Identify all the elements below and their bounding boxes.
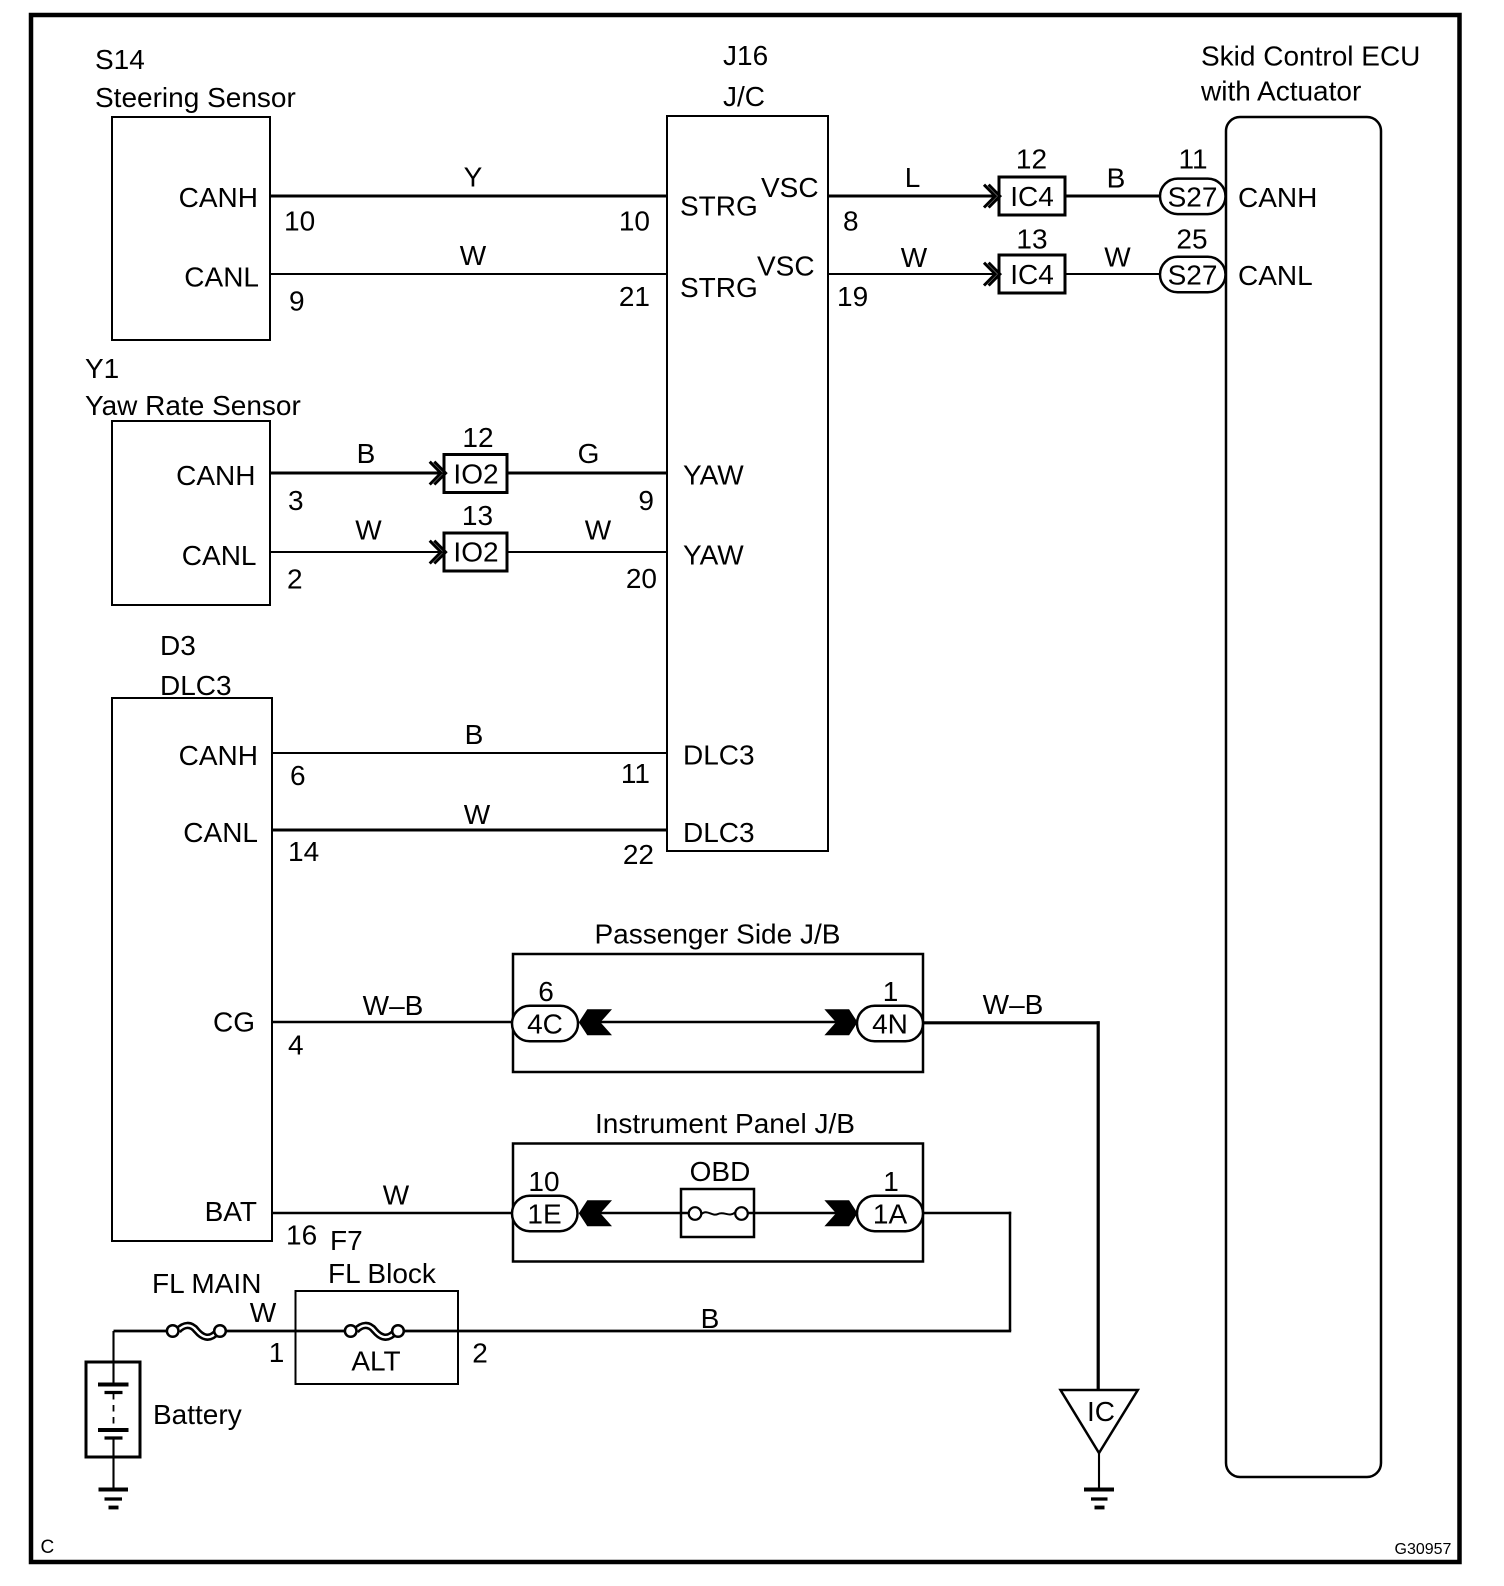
- svg-text:CANH: CANH: [1238, 182, 1317, 213]
- svg-text:6: 6: [290, 760, 306, 791]
- svg-text:14: 14: [288, 836, 319, 867]
- svg-text:W: W: [383, 1180, 410, 1211]
- svg-text:CANL: CANL: [182, 540, 257, 571]
- svg-text:F7: F7: [330, 1225, 363, 1256]
- svg-text:3: 3: [288, 485, 304, 516]
- svg-text:2: 2: [472, 1338, 488, 1369]
- svg-text:CG: CG: [213, 1007, 255, 1038]
- svg-text:YAW: YAW: [683, 460, 744, 491]
- svg-text:S27: S27: [1168, 260, 1218, 291]
- svg-text:D3: D3: [160, 630, 196, 661]
- svg-text:Skid Control ECU: Skid Control ECU: [1201, 41, 1420, 72]
- svg-text:12: 12: [462, 422, 493, 453]
- svg-text:W: W: [464, 799, 491, 830]
- svg-text:19: 19: [837, 281, 868, 312]
- svg-text:G30957: G30957: [1395, 1541, 1452, 1558]
- svg-text:10: 10: [619, 206, 650, 237]
- svg-text:ALT: ALT: [351, 1346, 400, 1377]
- svg-text:4: 4: [288, 1030, 304, 1061]
- svg-text:W–B: W–B: [983, 989, 1044, 1020]
- svg-text:STRG: STRG: [680, 191, 758, 222]
- svg-text:VSC: VSC: [761, 172, 819, 203]
- svg-text:IC4: IC4: [1010, 259, 1054, 290]
- svg-text:9: 9: [289, 286, 305, 317]
- svg-text:22: 22: [623, 839, 654, 870]
- svg-text:W–B: W–B: [363, 990, 424, 1021]
- svg-text:Instrument Panel J/B: Instrument Panel J/B: [595, 1108, 855, 1139]
- svg-text:13: 13: [462, 500, 493, 531]
- svg-text:DLC3: DLC3: [683, 817, 755, 848]
- svg-text:IC: IC: [1087, 1396, 1115, 1427]
- svg-text:W: W: [901, 242, 928, 273]
- svg-text:1: 1: [269, 1337, 285, 1368]
- svg-text:12: 12: [1016, 144, 1047, 175]
- svg-text:2: 2: [287, 564, 303, 595]
- svg-text:CANH: CANH: [179, 740, 258, 771]
- svg-text:CANH: CANH: [179, 182, 258, 213]
- svg-text:B: B: [701, 1303, 720, 1334]
- svg-text:W: W: [1104, 242, 1131, 273]
- svg-text:CANL: CANL: [183, 817, 258, 848]
- svg-text:1E: 1E: [527, 1199, 561, 1230]
- svg-text:B: B: [465, 719, 484, 750]
- svg-text:L: L: [905, 162, 921, 193]
- svg-text:Y1: Y1: [85, 353, 119, 384]
- svg-text:1A: 1A: [873, 1199, 908, 1230]
- svg-text:1: 1: [883, 976, 899, 1007]
- svg-text:STRG: STRG: [680, 272, 758, 303]
- svg-text:W: W: [355, 515, 382, 546]
- svg-text:4C: 4C: [527, 1009, 563, 1040]
- svg-text:J16: J16: [723, 40, 768, 71]
- svg-text:10: 10: [528, 1166, 559, 1197]
- svg-text:Passenger Side J/B: Passenger Side J/B: [595, 919, 841, 950]
- svg-text:Y: Y: [464, 162, 483, 193]
- svg-text:21: 21: [619, 281, 650, 312]
- svg-text:8: 8: [843, 206, 859, 237]
- svg-text:6: 6: [538, 976, 554, 1007]
- svg-text:DLC3: DLC3: [683, 740, 755, 771]
- svg-text:S27: S27: [1168, 182, 1218, 213]
- svg-text:4N: 4N: [872, 1009, 908, 1040]
- svg-text:13: 13: [1016, 224, 1047, 255]
- svg-text:11: 11: [1178, 144, 1207, 175]
- svg-text:BAT: BAT: [205, 1196, 257, 1227]
- svg-text:1: 1: [883, 1166, 899, 1197]
- svg-text:Battery: Battery: [153, 1399, 242, 1430]
- svg-text:Steering Sensor: Steering Sensor: [95, 82, 296, 113]
- svg-text:IO2: IO2: [453, 537, 498, 568]
- svg-text:11: 11: [621, 758, 650, 789]
- svg-text:W: W: [585, 515, 612, 546]
- svg-text:W: W: [460, 240, 487, 271]
- svg-text:16: 16: [286, 1220, 317, 1251]
- svg-text:20: 20: [626, 563, 657, 594]
- svg-text:OBD: OBD: [690, 1156, 751, 1187]
- svg-text:FL MAIN: FL MAIN: [152, 1268, 261, 1299]
- svg-text:IC4: IC4: [1010, 181, 1054, 212]
- svg-text:Yaw Rate Sensor: Yaw Rate Sensor: [85, 390, 301, 421]
- svg-text:C: C: [41, 1537, 55, 1558]
- svg-text:VSC: VSC: [757, 251, 815, 282]
- svg-text:FL Block: FL Block: [328, 1258, 437, 1289]
- svg-text:with Actuator: with Actuator: [1200, 76, 1361, 107]
- svg-text:IO2: IO2: [453, 459, 498, 490]
- svg-text:W: W: [250, 1297, 277, 1328]
- svg-text:CANH: CANH: [176, 460, 255, 491]
- svg-text:CANL: CANL: [1238, 260, 1313, 291]
- svg-text:10: 10: [284, 206, 315, 237]
- svg-text:DLC3: DLC3: [160, 670, 232, 701]
- svg-text:G: G: [578, 438, 600, 469]
- svg-text:S14: S14: [95, 44, 145, 75]
- svg-text:CANL: CANL: [184, 262, 259, 293]
- svg-text:J/C: J/C: [723, 81, 765, 112]
- svg-text:9: 9: [638, 485, 654, 516]
- svg-text:B: B: [357, 438, 376, 469]
- svg-text:YAW: YAW: [683, 540, 744, 571]
- svg-text:B: B: [1107, 163, 1126, 194]
- svg-text:25: 25: [1176, 224, 1207, 255]
